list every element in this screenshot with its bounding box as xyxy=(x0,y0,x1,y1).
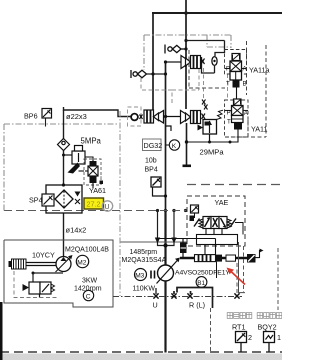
svg-text:5MPa: 5MPa xyxy=(81,137,102,146)
svg-text:BP6: BP6 xyxy=(24,112,38,121)
svg-text:M2QA315S4A: M2QA315S4A xyxy=(122,257,167,264)
svg-text:10b: 10b xyxy=(145,158,157,165)
pilot x above xyxy=(202,100,206,105)
wire x166 upper xyxy=(165,62,167,211)
aux suction line xyxy=(32,272,64,283)
node filter inlet junction xyxy=(62,183,65,186)
proportional valve (left of pair) xyxy=(131,110,180,123)
oil temp / level labels xyxy=(227,313,252,319)
svg-text:R (L): R (L) xyxy=(189,301,205,310)
motor M2 circle xyxy=(76,255,88,267)
marker B1 circle xyxy=(196,277,207,288)
gray pilot dash-dot box (aux unit) xyxy=(4,35,231,211)
valve YA61 (cartridge) xyxy=(79,159,104,188)
svg-text:RT1: RT1 xyxy=(232,323,245,332)
red annotation arrow xyxy=(227,268,246,285)
svg-text:C: C xyxy=(86,294,91,301)
node U circle marker xyxy=(102,201,112,211)
wire x186 top xyxy=(185,0,187,109)
svg-text:2: 2 xyxy=(248,333,252,342)
node junction dots on y210 dash line xyxy=(156,11,188,212)
gauge K circle xyxy=(169,140,179,150)
svg-text:29MPa: 29MPa xyxy=(200,148,225,157)
svg-text:ø14x2: ø14x2 xyxy=(66,226,87,235)
main pump A4VSO circle xyxy=(157,258,181,284)
gauge in YAE xyxy=(191,205,199,218)
wire YA11 drain xyxy=(187,130,239,143)
wire A-port stub xyxy=(242,68,247,70)
DFE control valve row xyxy=(180,255,247,278)
pump control stub box xyxy=(180,243,187,254)
filter SP4 block xyxy=(46,185,82,213)
proportional valve (top, DR pilot) xyxy=(166,56,205,69)
orifice ellipse xyxy=(212,57,217,66)
svg-text:U: U xyxy=(153,301,158,310)
check valve (branch y49) xyxy=(165,45,186,54)
svg-text:T: T xyxy=(227,119,231,126)
pilot orifice enclosure box xyxy=(128,107,142,126)
svg-text:A4VSO250DFE1Y: A4VSO250DFE1Y xyxy=(175,270,230,277)
wire x153 xyxy=(152,13,154,110)
svg-text:P: P xyxy=(226,66,230,73)
YAE directional valve xyxy=(190,216,237,229)
motor coupling block (hatched) xyxy=(9,259,57,269)
pump feed arrows into main pump xyxy=(158,211,175,246)
solenoid valve YA11a xyxy=(226,54,248,88)
spring X left xyxy=(197,57,202,64)
motor M3 circle xyxy=(135,269,147,281)
svg-text:YA61: YA61 xyxy=(89,186,106,195)
svg-text:M3: M3 xyxy=(135,273,144,280)
svg-text:27.2: 27.2 xyxy=(87,200,101,209)
wire stub jog xyxy=(166,126,172,131)
wire x166 lower thick xyxy=(164,211,166,353)
svg-text:YA11a: YA11a xyxy=(249,66,270,75)
coupling bars xyxy=(150,271,152,279)
sensor BQY2 xyxy=(264,332,282,353)
check valve (branch y74) xyxy=(131,70,166,78)
gray pilot dashed segments (center) xyxy=(141,68,228,105)
pressure switch SP4 xyxy=(29,194,54,206)
svg-text:T: T xyxy=(226,81,230,88)
left black border bar xyxy=(0,302,3,360)
drain flag xyxy=(256,249,264,259)
relief valve 5MPa xyxy=(62,146,85,165)
highlight value box (yellow) xyxy=(84,198,104,209)
main unit solid enclosure xyxy=(120,241,187,243)
drain dash-dot collector line xyxy=(113,296,242,298)
sensor RT1 xyxy=(236,332,253,353)
wire: top main header line xyxy=(152,12,282,14)
svg-text:U: U xyxy=(105,204,110,211)
relief valve 29MPa xyxy=(198,105,224,144)
wire YA11a to YA11 xyxy=(236,88,238,100)
aux valve pilot dashed box xyxy=(14,271,57,298)
pilot dashed drains right xyxy=(211,246,279,352)
case drain header xyxy=(156,288,213,309)
wire: main verticals xyxy=(153,0,186,211)
svg-text:1: 1 xyxy=(277,333,281,342)
svg-text:YA11: YA11 xyxy=(251,125,268,134)
YA11 dashed sub-box xyxy=(225,100,249,137)
sensor BP6 xyxy=(24,109,52,127)
valve group dashed border xyxy=(189,41,266,137)
check valve (ø22 line) xyxy=(58,139,70,151)
wire: long dash enclosure top (tank unit right) xyxy=(187,184,282,186)
svg-text:DG32: DG32 xyxy=(144,141,163,150)
pump 10YCY circle xyxy=(56,255,73,272)
tag box DG32 xyxy=(143,139,163,151)
gauge box on control line xyxy=(247,254,256,263)
svg-text:SP4: SP4 xyxy=(29,196,43,205)
tank symbol (relief return) xyxy=(186,123,188,165)
svg-text:M2: M2 xyxy=(77,260,86,267)
svg-text:YAE: YAE xyxy=(215,198,229,207)
unloading valve (aux) xyxy=(23,282,55,298)
svg-text:BQY2: BQY2 xyxy=(258,323,277,332)
solenoid valve YA11 xyxy=(227,99,249,130)
svg-text:ø22x3: ø22x3 xyxy=(66,112,87,121)
YA11a dashed sub-box xyxy=(225,50,247,75)
wire: suction riser with jog to prop valve xyxy=(64,107,132,257)
YAE subplate xyxy=(197,235,238,245)
closed port X marks xyxy=(153,293,239,298)
svg-text:K: K xyxy=(172,143,177,150)
sensor BP4 xyxy=(151,177,167,198)
svg-text:10YCY: 10YCY xyxy=(32,251,55,260)
aux unit solid box xyxy=(4,240,113,307)
svg-text:1485rpm: 1485rpm xyxy=(130,249,158,256)
svg-text:P: P xyxy=(227,110,231,117)
svg-text:M2QA100L4B: M2QA100L4B xyxy=(65,247,109,254)
filter bypass check xyxy=(75,192,81,205)
wire: long dash enclosure bottom (aux unit) xyxy=(4,210,186,212)
relief outlet arrow xyxy=(68,163,81,174)
tank top strip xyxy=(0,352,282,360)
YAE dashed box xyxy=(187,196,245,246)
marker C circle xyxy=(83,290,93,300)
wire: branch to orifice/YA11a rail xyxy=(186,41,225,74)
svg-text:BP4: BP4 xyxy=(145,167,158,174)
svg-text:110KW: 110KW xyxy=(133,286,156,293)
svg-text:3KW: 3KW xyxy=(82,278,98,285)
svg-text:B: B xyxy=(243,81,247,88)
svg-text:B1: B1 xyxy=(197,280,205,287)
proportional valve (right of pair) xyxy=(181,111,206,124)
